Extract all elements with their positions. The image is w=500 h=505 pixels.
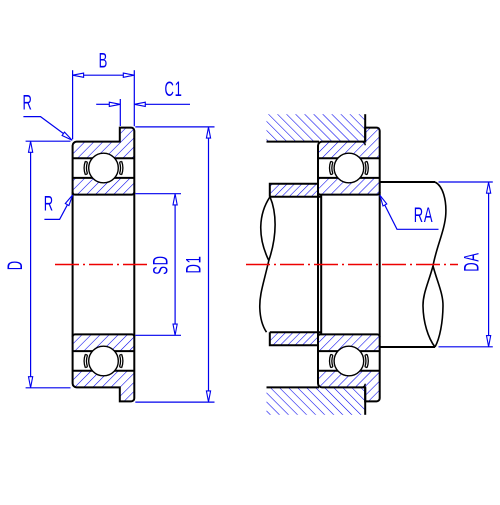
right-view ball [334, 346, 364, 376]
housing face line top [364, 114, 366, 141]
svg-text:R: R [23, 90, 33, 114]
svg-text:DA: DA [459, 252, 483, 272]
sleeve outline bottom [270, 332, 321, 345]
sleeve hatch bottom [270, 332, 318, 345]
sleeve hatch top [270, 184, 318, 197]
right-view cage [330, 354, 333, 367]
dimension D [26, 140, 71, 142]
housing face line bottom [364, 387, 366, 414]
dimension C1 [119, 99, 121, 126]
housing corner relief bottom [362, 384, 366, 388]
housing hatch bottom [267, 387, 366, 414]
left-view cage [84, 354, 87, 367]
housing corner relief top [362, 142, 366, 146]
left-view ball [89, 346, 119, 376]
right-view outline [318, 128, 380, 402]
right-view ball [334, 153, 364, 183]
shaft right break line [423, 182, 446, 347]
housing hatch top [267, 114, 366, 141]
housing bore line bottom [267, 386, 320, 388]
left-view ball [89, 153, 119, 183]
svg-text:SD: SD [148, 255, 172, 275]
centerline right view [246, 264, 458, 266]
housing bore line top [267, 141, 320, 143]
right-view outer ring hatch (top, with flange) [318, 128, 380, 159]
shaft seat step line [320, 195, 322, 335]
left-view cage [84, 161, 87, 174]
sleeve outline top [270, 184, 321, 197]
svg-text:C1: C1 [164, 77, 182, 101]
left-view bore lines [73, 192, 135, 194]
dimension SD [135, 193, 181, 195]
svg-text:RA: RA [414, 203, 434, 227]
left-view inner ring hatch (bottom) [73, 334, 135, 351]
dimension B [72, 70, 74, 139]
right-view outer ring hatch (bottom, with flange) [318, 371, 380, 402]
left-view inner ring hatch (top) [73, 178, 135, 195]
left-view raceway lines [73, 157, 135, 159]
right-view cage [330, 161, 333, 174]
right-view inner ring hatch (top) [318, 178, 380, 195]
left-view outer ring hatch (bottom, with flange) [73, 371, 135, 402]
shaft left break line [269, 197, 275, 261]
dimension D1 [135, 126, 214, 128]
centerline left view [55, 264, 147, 266]
shaft shoulder bottom line [380, 346, 435, 348]
dimension DA [439, 181, 493, 183]
shaft shoulder top line [380, 181, 435, 183]
right-view raceway lines [318, 157, 380, 159]
right-view inner ring hatch (bottom) [318, 334, 380, 351]
svg-text:D: D [3, 260, 27, 270]
svg-text:R: R [44, 191, 54, 215]
svg-text:B: B [99, 48, 108, 72]
right-view bore lines [318, 192, 380, 194]
left-view outline [73, 128, 135, 402]
left-view outer ring hatch (top, with flange) [73, 128, 135, 159]
svg-text:D1: D1 [181, 255, 205, 273]
